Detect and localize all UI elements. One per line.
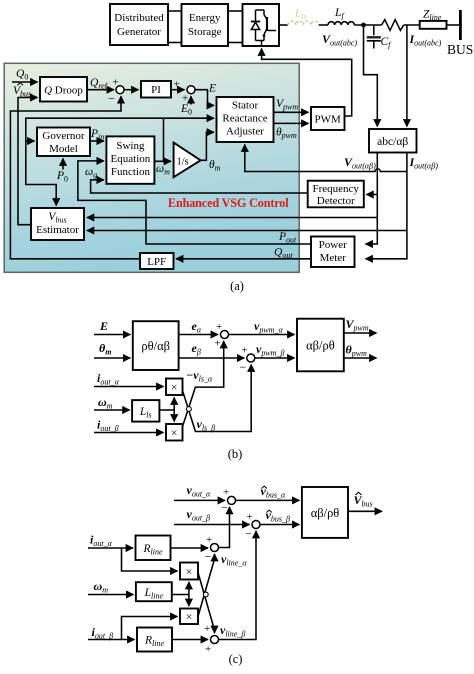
wire DG-ES top (168, 10, 182, 12)
svg-text:×: × (171, 380, 178, 394)
label Cf (381, 36, 393, 50)
wire governor to swing block (90, 140, 104, 142)
label E input (99, 319, 108, 333)
abc/alphabeta transform block (369, 129, 417, 153)
svg-text:Distributed: Distributed (114, 12, 164, 24)
wire i_out_beta into multiplier M2 (94, 432, 164, 434)
svg-text:×: × (186, 610, 193, 624)
caption (b) (228, 447, 243, 461)
svg-text:Equation: Equation (111, 153, 151, 165)
label vbus_beta hat (266, 508, 290, 524)
wire Vpwm output arrow (344, 332, 377, 334)
label -v_ls_alpha (186, 368, 213, 384)
PWM block (311, 107, 345, 130)
label Qout (274, 247, 293, 261)
wire droop to summing S1 (87, 89, 114, 91)
svg-text:ρθ/αβ: ρθ/αβ (141, 339, 170, 353)
summing junction C1 (221, 487, 236, 515)
label Iout(abc) (409, 32, 442, 48)
label Vpwm output (346, 317, 369, 333)
svg-text:Meter: Meter (320, 252, 347, 264)
energy storage block B1 (182, 4, 229, 46)
label omega_m input (98, 395, 113, 411)
svg-text:αβ/ρθ: αβ/ρθ (306, 339, 335, 353)
label e_alpha (192, 319, 202, 335)
label v_out_alpha (187, 483, 212, 499)
label Lf (334, 7, 345, 21)
svg-text:Energy: Energy (189, 12, 221, 24)
wire B1 to output transform (229, 334, 295, 336)
alphabeta to polar block (c) (302, 487, 348, 538)
VSG control panel background (4, 63, 299, 272)
svg-text:Frequency: Frequency (312, 183, 359, 195)
label v_line_alpha (221, 552, 247, 568)
svg-text:+: + (216, 321, 222, 333)
wire B2 to output transform (255, 357, 295, 359)
wire Lf to node (354, 24, 381, 26)
red title: Enhanced VSG Control (168, 196, 289, 210)
svg-text:(c): (c) (229, 652, 243, 666)
wire C3 output up to C1 minus (219, 507, 230, 548)
svg-text:Adjuster: Adjuster (226, 126, 264, 138)
svg-text:+: + (242, 345, 248, 357)
LPF block (140, 253, 174, 269)
svg-text:Reactance: Reactance (222, 113, 267, 125)
wire ES-inverter top (228, 10, 243, 12)
label v_line_beta (220, 623, 245, 639)
svg-text:Enhanced VSG Control: Enhanced VSG Control (168, 196, 289, 210)
label E (208, 83, 216, 95)
wire omega_m feedback to adjuster and estimator (164, 118, 215, 161)
svg-text:Power: Power (319, 239, 347, 251)
svg-text:+: + (174, 79, 180, 91)
label v_pwm_beta (256, 342, 284, 358)
svg-text:+: + (205, 644, 211, 656)
svg-text:Model: Model (49, 143, 78, 155)
Rline2 gain block (137, 628, 172, 652)
wire Pout from power meter to swing block (78, 161, 311, 244)
generator block G1: Distributed Generator (110, 4, 168, 45)
wire Rline1 to summing C3 (171, 547, 209, 549)
line impedance Zline box (420, 21, 447, 29)
integrator 1/s triangle (174, 143, 201, 178)
summing junction S1 (108, 77, 124, 106)
wire Iout(ab) down from transform (366, 153, 407, 259)
wire adjuster to PWM (theta_pwm) (274, 122, 309, 124)
wire omega_m into Lls gain (94, 409, 130, 411)
wire Zline to BUS (447, 24, 460, 26)
Vbus Estimator block (31, 208, 84, 240)
svg-text:Q Droop: Q Droop (44, 85, 83, 97)
wire C1 to transform (236, 499, 300, 501)
svg-text:−: − (108, 92, 115, 106)
inverter U1 box (243, 4, 280, 46)
label theta_m (209, 159, 221, 173)
wire E into transform (94, 334, 130, 336)
wire adjuster to PWM (Vpwm) (274, 111, 309, 113)
virtual stator inductor Lls (dashed, pale) (288, 21, 319, 25)
label Pout (278, 231, 297, 245)
summing junction C2 (245, 511, 260, 541)
wire Vbus output arrow (348, 510, 382, 512)
svg-text:αβ/ρθ: αβ/ρθ (311, 506, 340, 520)
wire M1 cross line to v_ls_beta and B2 (183, 365, 252, 432)
Lline gain block (136, 582, 172, 601)
wire inverter to filter (279, 24, 288, 26)
wire v_out_beta to summing C2 (174, 524, 250, 526)
svg-text:×: × (186, 565, 193, 579)
label theta_pwm output (346, 343, 368, 359)
summing junction S2 (174, 79, 196, 105)
caption (c) (229, 652, 243, 666)
svg-text:Storage: Storage (188, 26, 222, 38)
alphabeta to polar transform block (297, 319, 344, 372)
label i_out_alpha (97, 371, 120, 387)
label Iout(ab) (409, 155, 439, 171)
label Vout(abc) (322, 32, 357, 48)
wire v_out_alpha to summing C1 (174, 499, 225, 501)
label vbus_alpha hat (261, 484, 286, 500)
label theta_pwm (276, 127, 297, 141)
label i_out_alpha (c) (90, 533, 113, 549)
input Vbus-hat into droop (13, 83, 31, 99)
label E0 (180, 103, 192, 117)
summing junction C4 (204, 623, 219, 656)
wire swing to integrator (154, 160, 171, 162)
wire C4 output up to C2 minus (219, 531, 257, 640)
wire theta_pwm output arrow (344, 357, 377, 359)
inverter IGBT symbol with anti-parallel diode D1 (251, 10, 276, 46)
svg-text:Stator: Stator (232, 100, 259, 112)
multiplier M2 (166, 424, 183, 441)
Governor Model block (37, 128, 90, 157)
crossover hop (c) (203, 592, 208, 597)
svg-text:−: − (221, 501, 228, 515)
wire omega_m branch to governor input and Vbus estimator (26, 118, 164, 205)
wire: Vout(abc) tap to abc/ab transform (364, 25, 378, 127)
svg-text:(a): (a) (230, 279, 244, 293)
summing junction B2 (240, 345, 255, 375)
svg-text:Generator: Generator (117, 26, 161, 38)
wire e_beta to summing B2 (179, 357, 245, 359)
svg-text:+: + (223, 487, 229, 499)
Power Meter block (311, 237, 355, 268)
svg-text:+: + (204, 623, 210, 635)
wire e_alpha to summing B1 (179, 334, 218, 336)
label BUS (447, 42, 473, 57)
svg-text:Detector: Detector (317, 195, 355, 207)
svg-text:PWM: PWM (315, 114, 342, 126)
input Q0 (16, 68, 28, 82)
svg-text:(b): (b) (228, 447, 243, 461)
wire PWM to inverter gate (262, 49, 352, 117)
label v_ls_beta (197, 417, 216, 433)
wire Qout from power meter to LPF (176, 258, 311, 260)
wire theta_m to adjuster (201, 132, 214, 160)
svg-text:Swing: Swing (116, 140, 145, 152)
wire Lls output to both multipliers (159, 409, 174, 411)
wire S2 (E) to Stator Reactance Adjuster (195, 90, 214, 106)
label e_beta (192, 341, 201, 357)
Stator Reactance Adjuster block (217, 97, 274, 142)
wire Rline2 to summing C4 (172, 639, 208, 641)
wire i_out_beta branch to multiplier M4 (122, 617, 178, 640)
svg-text:−: − (205, 550, 212, 564)
label Vpwm (276, 98, 298, 112)
wire DG-ES bottom (168, 42, 182, 44)
wire Vout(ab) down from transform (366, 153, 378, 245)
summing junction C3 (205, 534, 219, 564)
wire i_out_beta into Rline2 (88, 639, 135, 641)
svg-text:+: + (215, 338, 221, 350)
svg-text:Function: Function (111, 166, 151, 178)
wire M2 cross line to -v_ls_alpha and B1 (183, 341, 224, 427)
label Pin (90, 128, 104, 142)
svg-text:+: + (247, 511, 253, 523)
wire LPF output to S1 minus input (10, 96, 140, 259)
wire S1 to PI (124, 89, 139, 91)
crossover hop (187, 407, 192, 412)
wire M3 cross down to C4 (198, 573, 215, 634)
wire omega_g from frequency detector to swing block (91, 180, 308, 193)
svg-text:−: − (240, 360, 247, 374)
svg-text:+: + (206, 534, 212, 546)
line resistor (zigzag) R1 (382, 20, 404, 31)
wire Vout(ab) into frequency detector (366, 194, 377, 196)
filter inductor Lf (328, 22, 354, 25)
svg-text:E: E (99, 319, 108, 333)
svg-text:abc/αβ: abc/αβ (377, 136, 408, 148)
label v_out_beta (187, 507, 211, 523)
wire zigzag to Zline (404, 24, 420, 26)
wire P0 into governor (62, 159, 64, 170)
wire i_out_alpha into Rline1 (88, 547, 133, 549)
svg-text:Estimator: Estimator (36, 224, 79, 236)
wire PI to summing S2 (171, 89, 185, 91)
label Lls (294, 8, 307, 22)
BUS bar (459, 10, 462, 40)
Swing Equation Function block (106, 136, 154, 183)
label i_out_beta (c) (92, 625, 114, 641)
label Zline (423, 9, 442, 23)
wire Lls to Lf (319, 24, 328, 26)
wire Vout(ab) to Vbus estimator (87, 217, 377, 219)
label v_pwm_alpha (254, 319, 283, 335)
wire C2 to transform (260, 524, 299, 526)
summing junction B1 (215, 321, 229, 350)
wire omega_m into Lline (88, 594, 133, 596)
svg-text:Governor: Governor (42, 130, 84, 142)
Lls gain block (132, 400, 159, 422)
svg-text:×: × (171, 426, 178, 440)
svg-text:1/s: 1/s (177, 157, 189, 168)
wire M4 cross up to C3 (198, 554, 215, 617)
svg-text:PI: PI (151, 84, 161, 96)
label omega_g (85, 166, 97, 180)
PI controller block (141, 81, 171, 98)
wire Lline output to both multipliers (172, 594, 189, 596)
label Qref (90, 77, 109, 91)
wire E0 into S2 (190, 96, 192, 104)
label P0 (56, 170, 68, 184)
multiplier M1 (166, 379, 183, 396)
wire Iout(ab) to Vbus estimator (87, 230, 407, 232)
label omega_m (c) (94, 579, 109, 595)
wire theta_m into transform (94, 357, 130, 359)
wire: Iout(abc) tap to abc/ab transform (406, 25, 408, 127)
svg-text:LPF: LPF (147, 256, 166, 268)
label Vbus hat output (354, 492, 373, 508)
Frequency Detector block (308, 181, 364, 208)
caption (a) (230, 279, 244, 293)
wire i_out_alpha branch to multiplier M3 (122, 548, 178, 571)
Q Droop block (40, 77, 87, 102)
multiplier M3 (180, 563, 198, 580)
wire estimator output to Q Droop (Vbus-hat feedback) (18, 98, 38, 225)
wire i_out_alpha into multiplier M1 (94, 386, 164, 388)
label omega_m (156, 163, 170, 177)
label Vout(ab) (344, 155, 376, 171)
filter capacitor Cf (367, 25, 381, 49)
svg-text:−: − (245, 527, 252, 541)
label i_out_beta (97, 418, 119, 434)
wire ES-inverter bottom (228, 42, 243, 44)
label theta_m input (99, 341, 111, 357)
polar to alphabeta transform block (133, 321, 179, 370)
svg-text:+: + (113, 77, 119, 89)
wire branch into Governor Model (26, 140, 35, 142)
wire Q0 into Q Droop (12, 81, 38, 83)
wire Iout(ab) to adjuster bottom (hops over Vout line) (245, 145, 407, 172)
svg-text:BUS: BUS (447, 42, 473, 57)
svg-text:E: E (208, 83, 216, 95)
multiplier M4 (180, 609, 198, 625)
Rline1 gain block (136, 536, 171, 561)
node: output voltage measuring point (361, 23, 366, 28)
